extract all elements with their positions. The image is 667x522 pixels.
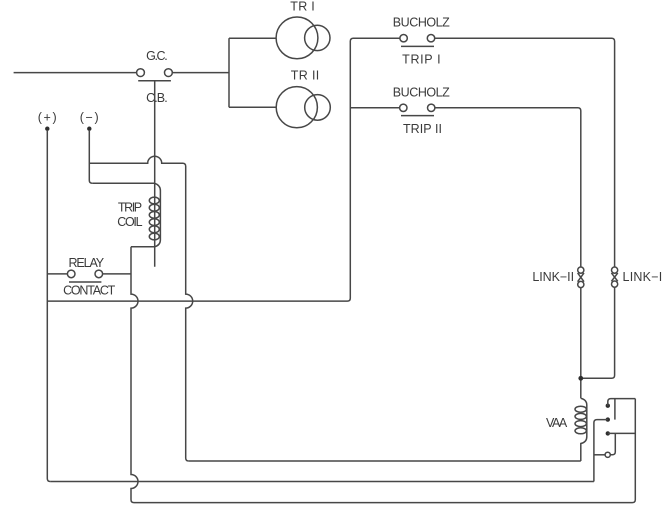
transformer TR II <box>276 87 317 128</box>
node junction LINK rails <box>578 376 583 381</box>
wire (+) vertical down to bottom bus <box>47 130 50 482</box>
wire left rail: coil bottom down, hops, bottom bus to right rail <box>131 247 635 503</box>
contact circle (NO) <box>605 452 610 457</box>
contact BUCHOLZ TRIP II circle left <box>400 104 407 111</box>
wire (+) bus right end up join <box>50 481 594 483</box>
svg-text:CONTACT: CONTACT <box>63 284 116 298</box>
svg-text:(−): (−) <box>80 111 99 125</box>
wire node2 left and down to (+) bus <box>594 420 608 482</box>
coil VAA turns <box>575 406 586 412</box>
link LINK-II <box>578 267 584 273</box>
svg-text:C.B.: C.B. <box>146 91 168 105</box>
svg-text:TR I: TR I <box>290 0 314 14</box>
svg-text:VAA: VAA <box>546 416 568 430</box>
contact G.C. circle left <box>137 69 145 77</box>
contact RELAY circle right <box>95 270 103 278</box>
contact RELAY bar <box>69 281 101 283</box>
wire (+) to relay contact <box>47 273 67 275</box>
transformer TR I <box>276 17 318 59</box>
wire top-left feeder <box>14 72 137 74</box>
wire tap to NO contact circle <box>594 454 605 456</box>
coil VAA winding return <box>581 398 587 461</box>
wire LINK-I rail down to junction <box>581 287 615 378</box>
wire BUCHOLZ I to LINK-I rail <box>435 38 615 267</box>
wire bottom bus to VAA coil <box>189 460 581 462</box>
wire (-) vertical <box>89 130 92 183</box>
VAA aux contact: node 2 <box>606 417 610 421</box>
wire BUCHOLZ II to LINK-II rail <box>435 108 581 267</box>
contact BUCHOLZ TRIP II circle right <box>428 104 435 111</box>
svg-text:TR II: TR II <box>291 68 320 82</box>
VAA aux contact: node 3 <box>606 431 610 435</box>
svg-text:LINK−II: LINK−II <box>532 270 574 284</box>
link LINK-I <box>612 267 618 273</box>
svg-text:TRIP I: TRIP I <box>402 53 441 67</box>
wire node3 to right rail <box>608 432 636 434</box>
wire transformer bracket vertical <box>228 38 230 107</box>
trip coil winding return <box>155 183 161 247</box>
circuit-breaker rod (C.B. vertical through trip coil) <box>154 81 156 267</box>
wire switch arm <box>614 399 616 420</box>
wire to TR II <box>229 106 276 108</box>
contact G.C. circle right <box>165 69 173 77</box>
contact BUCHOLZ TRIP II bar <box>401 115 434 117</box>
wire G.C. to transformer bracket <box>172 72 229 74</box>
contact C.B. bar <box>138 80 171 82</box>
svg-text:LINK−I: LINK−I <box>623 270 663 284</box>
svg-text:COIL: COIL <box>117 215 142 229</box>
svg-text:(+): (+) <box>38 111 57 125</box>
wire to TR I <box>229 37 276 39</box>
svg-text:RELAY: RELAY <box>69 256 105 270</box>
wire (-) to trip coil top <box>92 182 154 184</box>
svg-text:TRIP II: TRIP II <box>403 122 442 136</box>
wire trip coil bottom to left rail <box>131 246 155 248</box>
svg-text:G.C.: G.C. <box>146 49 168 63</box>
wire branch to BUCHOLZ II <box>350 107 399 109</box>
svg-text:BUCHOLZ: BUCHOLZ <box>393 15 450 29</box>
svg-text:TRIP: TRIP <box>118 201 142 215</box>
wire node1 up to top bar to right rail <box>608 399 636 406</box>
wire (-) branch with hop over C.B. rod, down right of coil to bottom <box>89 156 192 461</box>
wire contact circle up to node3 line <box>610 433 615 454</box>
contact BUCHOLZ TRIP I circle right <box>427 35 434 42</box>
contact RELAY circle left <box>67 270 75 278</box>
wire relay contact to coil rail <box>103 273 131 275</box>
VAA aux contact: node 1 <box>606 404 610 408</box>
wire LINK-II rail down to junction and VAA coil <box>580 288 582 399</box>
contact BUCHOLZ TRIP I circle left <box>400 35 407 42</box>
trip coil turns <box>149 197 159 204</box>
contact BUCHOLZ TRIP I bar <box>401 45 434 47</box>
svg-text:BUCHOLZ: BUCHOLZ <box>393 85 450 99</box>
wire (+) common to BUCHOLZ contacts <box>47 38 399 301</box>
